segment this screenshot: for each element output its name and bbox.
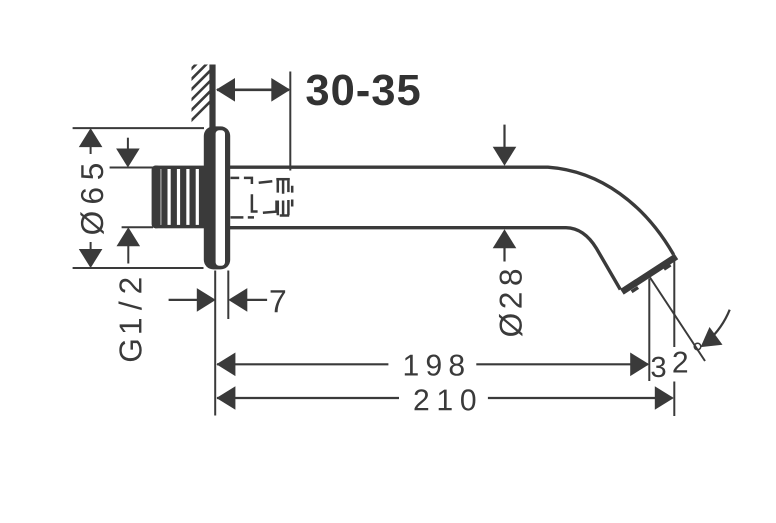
- thread stripes: [161, 166, 205, 228]
- wall line: [209, 65, 215, 129]
- dim 30-35 left arrow: [216, 78, 235, 102]
- angle 32 arc arrow: [708, 310, 730, 342]
- dim 7 left extension line: [214, 271, 216, 416]
- dim 7 left arrow: [197, 288, 216, 312]
- thread G1/2 end cap: [152, 166, 161, 229]
- dim 7 right arrow: [228, 288, 247, 312]
- dim 198 right arrow: [630, 353, 649, 377]
- dim G1/2 top arrow: [116, 149, 140, 168]
- dim 210 left arrow: [216, 386, 235, 410]
- spout top outline: [230, 167, 674, 254]
- dim 210 label: [415, 389, 476, 410]
- angle 32 label: [652, 343, 702, 378]
- dim Ø65 bottom arrow: [79, 249, 103, 268]
- hidden connector dashed body: [231, 178, 277, 218]
- dim Ø28 top arrow: [503, 125, 505, 148]
- outlet face bar: [622, 257, 677, 292]
- dim Ø28 label: [499, 270, 522, 336]
- dim 30-35 extension line: [289, 72, 291, 171]
- escutcheon flange: [204, 126, 230, 269]
- outlet tab left: [632, 288, 639, 292]
- spout bottom outline: [230, 228, 621, 290]
- angle 32 extension line 2 upper: [673, 259, 675, 348]
- dim G1/2 top extension line: [110, 167, 153, 169]
- dim Ø65 bottom extension line: [73, 267, 204, 269]
- dim G1/2 bottom arrow: [117, 227, 141, 246]
- dim 198 label: [405, 355, 464, 376]
- dim 30-35 line: [217, 89, 289, 92]
- flange interior: [216, 130, 225, 266]
- thread outline bottom: [155, 225, 205, 228]
- dim Ø65 label: [80, 164, 103, 234]
- dim G1/2 bottom extension line: [122, 226, 153, 228]
- dim 30-35 right arrow: [271, 78, 290, 102]
- dim 198 left arrow: [216, 353, 235, 377]
- thread outline top: [155, 166, 205, 169]
- wall hatching: [186, 34, 216, 126]
- angle 32 extension line 1: [648, 279, 650, 381]
- outlet tab right: [664, 265, 671, 269]
- dim G1/2 label: [118, 278, 141, 361]
- dim 198 line: [217, 363, 388, 365]
- angle 32 slant line: [650, 278, 705, 362]
- angle 32 extension line 2 lower: [673, 382, 675, 417]
- dim 7 label: [271, 290, 286, 312]
- dim 7 right extension line: [227, 271, 229, 320]
- dim 30-35 label: [306, 75, 419, 106]
- dim Ø28 bottom arrow: [493, 229, 517, 248]
- hidden connector dashed ribs: [276, 179, 292, 216]
- dim Ø65 top arrow: [79, 128, 103, 147]
- dim 210 right arrow: [655, 386, 674, 410]
- dim 210 line: [217, 397, 399, 399]
- dim Ø65 top extension line: [73, 127, 204, 129]
